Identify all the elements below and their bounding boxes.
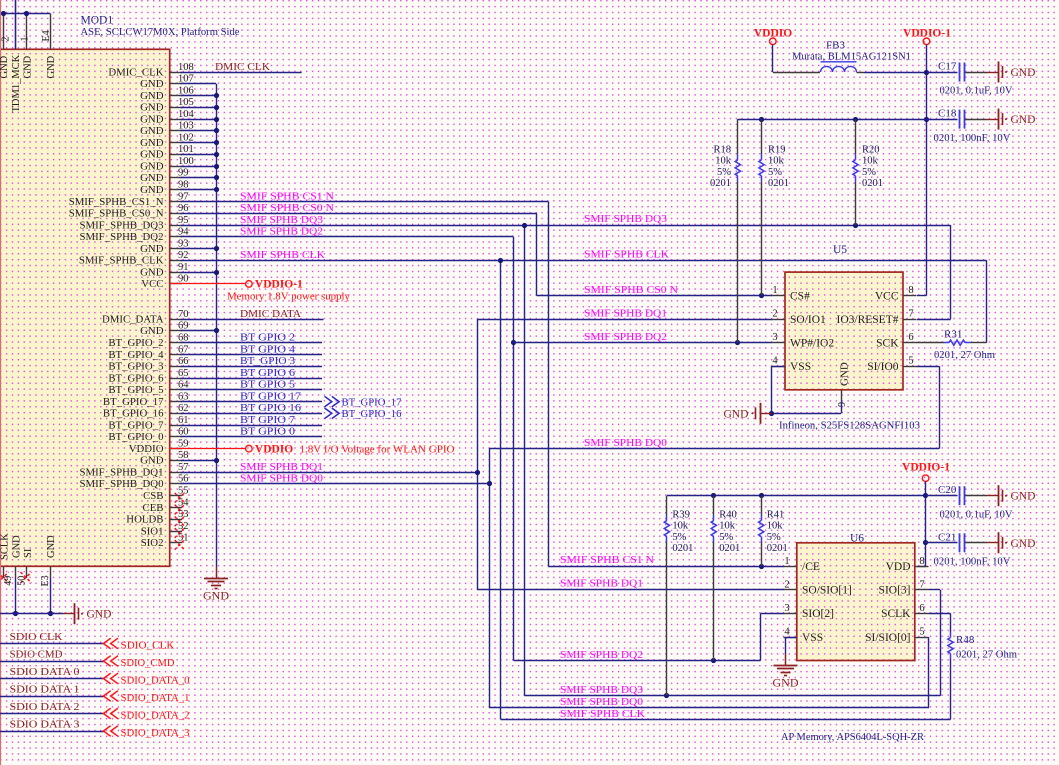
svg-text:6: 6 (919, 603, 924, 614)
pin 58 (GND) stub (170, 460, 183, 462)
svg-text:R39: R39 (672, 510, 690, 521)
pin 62 (BT_GPIO_16) stub (170, 413, 183, 415)
svg-text:SIO[2]: SIO[2] (802, 608, 834, 620)
svg-text:WP#/IO2: WP#/IO2 (790, 338, 834, 350)
junction GND bus pin 99 (214, 175, 219, 180)
off-page connector BT_GPIO_17 (325, 396, 340, 407)
wire SMIF_SPHB_CLK vertical (500, 260, 502, 719)
svg-text:CS#: CS# (790, 290, 810, 302)
svg-text:GND: GND (140, 243, 164, 255)
junction VSS/GND (769, 411, 774, 416)
svg-text:0201: 0201 (672, 543, 693, 554)
off-page connector SDIO_CMD (103, 656, 118, 667)
svg-text:0201: 0201 (767, 543, 788, 554)
pin 104 (GND) stub (170, 119, 183, 121)
svg-text:SMIF SPHB DQ2: SMIF SPHB DQ2 (240, 226, 323, 238)
svg-text:59: 59 (178, 438, 189, 449)
svg-text:67: 67 (178, 344, 189, 355)
svg-text:100: 100 (178, 156, 194, 167)
module MOD1 body (0, 49, 170, 566)
no-connect X on SCLK pin (0, 572, 9, 583)
svg-text:HOLDB: HOLDB (126, 514, 163, 526)
U5 fill (785, 273, 903, 390)
svg-text:BT_GPIO_17: BT_GPIO_17 (342, 397, 402, 409)
svg-text:SMIF SPHB CLK: SMIF SPHB CLK (584, 249, 669, 261)
svg-text:10k: 10k (672, 521, 689, 532)
wire net SDIO_DATA_2 (0, 713, 104, 715)
pin 67 (BT_GPIO_4) stub (170, 354, 183, 356)
wire net of pin 70 (181, 319, 324, 321)
pin 97 (SMIF_SPHB_CS1_N) stub (170, 201, 183, 203)
svg-text:BT GPIO 17: BT GPIO 17 (240, 390, 302, 402)
wire SMIF_SPHB_DQ2 lower run (514, 660, 761, 662)
svg-text:70: 70 (178, 309, 189, 320)
svg-text:DMIC_DATA: DMIC_DATA (102, 314, 164, 326)
junction DQ3 / R39 (664, 693, 669, 698)
module MOD1 fill (0, 49, 170, 566)
wire net of pin 91 (181, 272, 217, 274)
U5 pin 5 SI/IO0 stub (903, 366, 917, 368)
svg-text:GND: GND (140, 90, 164, 102)
wire net of pin 62 (181, 413, 323, 415)
svg-text:3: 3 (784, 603, 789, 614)
svg-text:GND: GND (140, 149, 164, 161)
off-page connector SDIO_DATA_2 (103, 708, 118, 719)
svg-text:GND: GND (1011, 491, 1036, 503)
pin 93 (GND) stub (170, 248, 183, 250)
svg-text:SMIF SPHB CS0 N: SMIF SPHB CS0 N (240, 202, 334, 214)
svg-text:BT_GPIO_3: BT_GPIO_3 (108, 361, 163, 373)
junction GND bus pin 58 (214, 458, 219, 463)
svg-text:108: 108 (178, 62, 194, 73)
pin 92 (SMIF_SPHB_CLK) stub (170, 260, 183, 262)
svg-text:GND: GND (46, 535, 57, 558)
svg-text:SMIF SPHB DQ2: SMIF SPHB DQ2 (584, 331, 667, 343)
U6 pin 4 VSS stub (784, 637, 797, 639)
junction CS0_N / R19 (759, 293, 764, 298)
U6 pin 8 VDD stub (915, 566, 929, 568)
svg-text:10k: 10k (862, 156, 879, 167)
svg-text:U5: U5 (833, 244, 847, 256)
svg-text:SMIF SPHB CS0 N: SMIF SPHB CS0 N (584, 284, 678, 296)
svg-text:SMIF_SPHB_DQ1: SMIF_SPHB_DQ1 (79, 467, 163, 479)
junction rail/R20 (853, 117, 858, 122)
svg-text:MOD1: MOD1 (81, 15, 114, 27)
svg-text:GND: GND (140, 102, 164, 114)
pin 105 (GND) stub (170, 107, 183, 109)
wire net of pin 103 (181, 130, 217, 132)
svg-text:SDIO DATA 3: SDIO DATA 3 (10, 719, 81, 731)
junction GND bus pin 91 (214, 270, 219, 275)
svg-text:SDIO_CMD: SDIO_CMD (121, 657, 175, 669)
wire net of pin 99 (181, 177, 217, 179)
svg-text:BT GPIO 6: BT GPIO 6 (240, 367, 296, 379)
svg-text:95: 95 (178, 215, 189, 226)
svg-text:3: 3 (772, 332, 777, 343)
svg-text:SMIF SPHB DQ0: SMIF SPHB DQ0 (560, 696, 644, 708)
junction GND bus pin 102 (214, 140, 219, 145)
pin TDM1_MCK top stub / wire off sheet (15, 0, 17, 49)
pin 107 (GND) stub (170, 83, 183, 85)
svg-text:5%: 5% (672, 532, 686, 543)
svg-text:66: 66 (178, 356, 189, 367)
svg-text:IO3/RESET#: IO3/RESET# (837, 314, 899, 326)
off-page connector SDIO_DATA_1 (103, 691, 118, 702)
svg-text:SI: SI (23, 548, 34, 558)
svg-text:SIO2: SIO2 (141, 537, 164, 549)
svg-text:SDIO_DATA_1: SDIO_DATA_1 (121, 692, 190, 704)
svg-text:5: 5 (919, 627, 924, 638)
svg-text:53: 53 (178, 509, 189, 520)
U6 pin 2 SO/SIO[1] stub (784, 589, 797, 591)
svg-text:58: 58 (178, 450, 189, 461)
svg-text:0201: 0201 (710, 178, 731, 189)
svg-text:0201, 0.1uF, 10V: 0201, 0.1uF, 10V (940, 508, 1013, 520)
svg-text:VDD: VDD (886, 561, 911, 573)
pin 54 (CEB) stub (170, 507, 183, 509)
memory U6 body (APS6404L psram) (797, 543, 915, 661)
svg-text:SMIF SPHB CS1 N: SMIF SPHB CS1 N (560, 554, 654, 566)
svg-text:SO/SIO[1]: SO/SIO[1] (802, 585, 852, 597)
junction DQ2 / R18 (735, 340, 740, 345)
no-connect X on pin 53 (175, 517, 185, 527)
svg-text:97: 97 (178, 191, 189, 202)
pin 68 (BT_GPIO_2) stub (170, 342, 183, 344)
svg-text:BT GPIO 2: BT GPIO 2 (240, 332, 295, 344)
pin 96 (SMIF_SPHB_CS0_N) stub (170, 213, 183, 215)
svg-text:U6: U6 (850, 533, 864, 545)
svg-text:C18: C18 (938, 108, 957, 120)
svg-text:GND: GND (1011, 114, 1036, 126)
bottom pin GND(49) stub+wire (15, 566, 17, 578)
bottom pin SCLK stub (3, 566, 5, 578)
svg-text:SIO[3]: SIO[3] (879, 585, 911, 597)
svg-text:GND: GND (22, 55, 33, 78)
no-connect X on pin 54 (175, 505, 185, 515)
svg-text:5: 5 (908, 356, 913, 367)
resistor R31 27 Ohm (SCK series) (917, 342, 944, 344)
wire SIO2 riser to U6 pin3 (760, 613, 762, 660)
capacitor C21 (923, 540, 928, 545)
svg-text:GND: GND (87, 609, 112, 621)
svg-text:0201, 27 Ohm: 0201, 27 Ohm (934, 349, 995, 361)
U5 pin 7 IO3/RESET# stub (903, 319, 917, 321)
wire FB3 to VDDIO-1 node (857, 72, 865, 74)
svg-text:4: 4 (784, 627, 790, 638)
svg-text:GND: GND (1011, 538, 1036, 550)
svg-text:BT_GPIO_17: BT_GPIO_17 (103, 396, 164, 408)
svg-text:63: 63 (178, 391, 189, 402)
wire VDDIO-1 rail (R18/R19/R20 tops) (738, 119, 927, 121)
wire SMIF_SPHB_DQ1 vertical (477, 319, 479, 590)
svg-text:7: 7 (908, 309, 913, 320)
svg-text:CEB: CEB (143, 502, 164, 514)
svg-text:SDIO_DATA_2: SDIO_DATA_2 (121, 709, 190, 721)
svg-text:0201: 0201 (768, 178, 789, 189)
wire net of pin 65 (181, 378, 323, 380)
no-connect X on pin 51 (175, 540, 185, 550)
svg-text:6: 6 (908, 332, 913, 343)
wire SMIF_SPHB_DQ2 vertical (513, 237, 515, 661)
pin 108 (DMIC_CLK) stub (170, 72, 183, 74)
svg-text:C20: C20 (938, 484, 957, 496)
pin 1 (GND) top stub (26, 14, 28, 50)
pin 59 (VDDIO) stub (170, 448, 183, 450)
svg-text:SMIF SPHB DQ1: SMIF SPHB DQ1 (560, 578, 643, 590)
svg-text:R40: R40 (719, 510, 737, 521)
svg-text:104: 104 (178, 109, 195, 120)
svg-text:SDIO DATA 1: SDIO DATA 1 (10, 684, 80, 696)
pin 91 (GND) stub (170, 272, 183, 274)
svg-text:TDM1_MCK: TDM1_MCK (11, 54, 22, 112)
svg-text:BT GPIO 4: BT GPIO 4 (240, 343, 296, 355)
svg-text:5%: 5% (719, 532, 733, 543)
svg-text:BT GPIO 0: BT GPIO 0 (240, 426, 296, 438)
svg-text:SCK: SCK (876, 338, 899, 350)
svg-text:10k: 10k (767, 521, 784, 532)
svg-text:BT_GPIO_0: BT_GPIO_0 (108, 431, 163, 443)
pin 60 (BT_GPIO_0) stub (170, 436, 183, 438)
svg-text:GND: GND (140, 161, 164, 173)
svg-text:BT_GPIO_16: BT_GPIO_16 (103, 408, 164, 420)
capacitor C17 (924, 70, 929, 75)
svg-text:96: 96 (178, 203, 189, 214)
pin 2 (GND) top stub (3, 14, 5, 50)
svg-text:0201, 100nF, 10V: 0201, 100nF, 10V (934, 132, 1011, 144)
svg-text:10k: 10k (768, 156, 785, 167)
svg-text:2: 2 (772, 309, 777, 320)
pin 57 (SMIF_SPHB_DQ1) stub (170, 472, 183, 474)
junction GND wire left (13, 611, 18, 616)
svg-text:7: 7 (919, 579, 924, 590)
svg-text:VDDIO: VDDIO (129, 443, 164, 455)
svg-text:BT GPIO 5: BT GPIO 5 (240, 379, 296, 391)
wire net of pin 102 (181, 142, 217, 144)
svg-text:1: 1 (19, 37, 30, 42)
no-connect X on SI pin (21, 572, 32, 583)
resistor R18 10k pull-up (737, 119, 739, 154)
svg-text:2: 2 (784, 579, 789, 590)
svg-text:SMIF_SPHB_CS0_N: SMIF_SPHB_CS0_N (69, 208, 164, 220)
junction rail/R40 (711, 493, 716, 498)
svg-text:BT_GPIO_7: BT_GPIO_7 (108, 419, 164, 431)
junction at pin 1 (24, 11, 29, 16)
svg-text:55: 55 (178, 486, 189, 497)
svg-text:GND: GND (140, 184, 164, 196)
U6 pin 3 SIO[2] stub (784, 613, 797, 615)
svg-text:SDIO DATA 0: SDIO DATA 0 (10, 666, 81, 678)
svg-text:SO/IO1: SO/IO1 (790, 314, 826, 326)
svg-text:GND: GND (1011, 67, 1036, 79)
wire net of pin 69 (181, 330, 217, 332)
pin 95 (SMIF_SPHB_DQ3) stub (170, 225, 183, 227)
svg-text:SDIO CLK: SDIO CLK (10, 631, 63, 643)
off-page connector SDIO_DATA_3 (103, 726, 118, 737)
U5 pin 8 VCC stub (903, 295, 917, 297)
svg-text:49: 49 (3, 576, 14, 586)
junction GND wire right (48, 611, 53, 616)
junction GND bus pin 69 (214, 328, 219, 333)
sheet border line (0, 0, 2, 765)
resistor R19 10k pull-up (761, 119, 763, 154)
pin 98 (GND) stub (170, 189, 183, 191)
off-page connector SDIO_DATA_0 (103, 673, 118, 684)
svg-text:0201, 100nF, 10V: 0201, 100nF, 10V (934, 556, 1011, 568)
junction DQ2 / R40 (711, 658, 716, 663)
svg-text:BT_GPIO_2: BT_GPIO_2 (108, 337, 163, 349)
wire SMIF_SPHB_DQ0 lower run (489, 707, 929, 709)
svg-text:106: 106 (178, 85, 194, 96)
svg-text:BT_GPIO_4: BT_GPIO_4 (108, 349, 164, 361)
svg-text:9: 9 (837, 402, 848, 407)
svg-text:52: 52 (178, 521, 189, 532)
bottom pin SI(50) stub (26, 566, 28, 578)
power wire VCC to VDDIO-1 (170, 283, 246, 285)
svg-text:AP Memory, APS6404L-SQH-ZR: AP Memory, APS6404L-SQH-ZR (781, 731, 925, 743)
junction GND bus pin 104 (214, 117, 219, 122)
svg-text:VDDIO: VDDIO (255, 443, 293, 455)
svg-text:R18: R18 (713, 145, 731, 156)
svg-text:DMIC DATA: DMIC DATA (240, 308, 301, 320)
wire net SDIO_CLK (0, 643, 104, 645)
wire U6 SIO[3] riser (929, 589, 941, 591)
svg-text:GND: GND (140, 125, 164, 137)
pin 55 (CSB) stub (170, 495, 183, 497)
svg-text:92: 92 (178, 250, 189, 261)
junction DQ3 / R20 (853, 223, 858, 228)
U5 pin 2 SO/IO1 stub (772, 319, 786, 321)
junction GND bus pin 100 (214, 164, 219, 169)
resistor R40 10k pull-up (713, 496, 715, 515)
svg-text:4: 4 (772, 356, 778, 367)
svg-text:SDIO CMD: SDIO CMD (10, 649, 63, 661)
svg-text:E3: E3 (40, 575, 51, 586)
U5 pin 3 WP#/IO2 stub (772, 342, 786, 344)
pin 61 (BT_GPIO_7) stub (170, 425, 183, 427)
svg-text:SMIF SPHB CLK: SMIF SPHB CLK (240, 249, 325, 261)
svg-text:Memory 1.8V power supply: Memory 1.8V power supply (227, 291, 350, 303)
svg-text:R41: R41 (767, 510, 785, 521)
svg-text:VCC: VCC (875, 290, 899, 302)
wire net SDIO_CMD (0, 661, 104, 663)
svg-text:SMIF_SPHB_CS1_N: SMIF_SPHB_CS1_N (69, 196, 164, 208)
svg-text:SI/IO0: SI/IO0 (867, 361, 899, 373)
svg-text:SMIF SPHB DQ1: SMIF SPHB DQ1 (240, 461, 323, 473)
U6 pin 5 SI/SIO[0] stub (915, 637, 929, 639)
off-page connector SDIO_CLK (103, 638, 118, 649)
pin 64 (BT_GPIO_5) stub (170, 389, 183, 391)
svg-text:SMIF SPHB DQ2: SMIF SPHB DQ2 (560, 649, 643, 661)
wire SMIF_SPHB_DQ1 to U6 pin2 (477, 589, 784, 591)
svg-text:BT_GPIO_6: BT_GPIO_6 (108, 372, 164, 384)
wire net SDIO_DATA_0 (0, 678, 104, 680)
svg-text:BT GPIO 16: BT GPIO 16 (240, 402, 302, 414)
svg-text:GND: GND (839, 362, 851, 386)
svg-text:DMIC CLK: DMIC CLK (215, 61, 270, 73)
svg-text:54: 54 (178, 497, 189, 508)
wire net of pin 95 (181, 225, 951, 227)
svg-text:/CE: /CE (802, 561, 820, 573)
svg-text:SI/SIO[0]: SI/SIO[0] (865, 632, 910, 644)
svg-text:0201: 0201 (719, 543, 740, 554)
svg-text:VDDIO-1: VDDIO-1 (255, 279, 303, 291)
junction GND bus pin 103 (214, 128, 219, 133)
svg-text:GND: GND (0, 55, 10, 78)
svg-text:R20: R20 (862, 145, 880, 156)
junction DQ0 / pin56 (487, 481, 492, 486)
wire SMIF_SPHB_DQ0 upper run (489, 448, 939, 450)
svg-text:5%: 5% (767, 532, 781, 543)
ferrite bead FB3 (821, 62, 857, 72)
wire SMIF_SPHB_DQ1 to U5 pin2 (477, 319, 772, 321)
wire net of pin 68 (181, 342, 323, 344)
wire net of pin 93 (181, 248, 217, 250)
resistor R39 10k pull-up (666, 496, 668, 515)
wire net of pin 105 (181, 107, 217, 109)
pin 56 (SMIF_SPHB_DQ0) stub (170, 483, 183, 485)
svg-text:62: 62 (178, 403, 189, 414)
svg-text:C21: C21 (938, 531, 956, 543)
wire net SDIO_DATA_3 (0, 731, 104, 733)
svg-text:101: 101 (178, 144, 194, 155)
pin 66 (BT_GPIO_3) stub (170, 366, 183, 368)
bottom pin E3 GND stub+wire (50, 566, 52, 578)
wire net of pin 60 (181, 436, 323, 438)
wire net of pin 61 (181, 425, 323, 427)
ground symbol at GND bus bottom (216, 567, 218, 578)
svg-text:10k: 10k (715, 156, 732, 167)
wire net of pin 67 (181, 354, 323, 356)
wire U5 VSS down (772, 366, 785, 368)
svg-text:DMIC_CLK: DMIC_CLK (108, 66, 163, 78)
pin 51 (SIO2) stub (170, 542, 183, 544)
wire net SDIO_DATA_1 (0, 696, 104, 698)
svg-text:GND: GND (46, 55, 57, 78)
wire net of pin 63 (181, 401, 323, 403)
wire net of pin 100 (181, 166, 217, 168)
svg-text:1: 1 (784, 556, 789, 567)
junction DQ3 branch (522, 223, 527, 228)
svg-text:GND: GND (140, 455, 164, 467)
junction rail/R19 (759, 117, 764, 122)
pin 90 (VCC) stub (170, 283, 183, 285)
svg-text:61: 61 (178, 415, 189, 426)
U6 pin 7 SIO[3] stub (915, 589, 929, 591)
wire net of pin 57 (181, 472, 478, 474)
U6 fill (797, 543, 915, 661)
power symbol VDDIO-1 at pin 90 (246, 281, 253, 288)
svg-text:GND: GND (140, 78, 164, 90)
svg-text:R48: R48 (956, 634, 975, 646)
U6 pin 1 /CE stub (784, 566, 797, 568)
wire SMIF_SPHB_CLK lower run (501, 719, 951, 721)
wire SMIF_SPHB_CS1_N vertical (548, 202, 550, 567)
svg-text:SMIF SPHB DQ3: SMIF SPHB DQ3 (560, 684, 644, 696)
svg-text:SDIO_DATA_0: SDIO_DATA_0 (121, 674, 190, 686)
no-connect X on pin 55 (175, 493, 185, 503)
wire SMIF_SPHB_CS1_N to U6 pin1 (548, 566, 784, 568)
junction CS1_N / R41 (759, 564, 764, 569)
capacitor C18 (924, 117, 929, 122)
svg-text:91: 91 (178, 262, 189, 273)
junction at pin 2 (1, 11, 6, 16)
wire SMIF_SPHB_DQ3 vertical (524, 225, 526, 696)
svg-text:GND: GND (140, 266, 164, 278)
svg-text:GND: GND (773, 675, 799, 689)
wire U5 SI/IO0 riser (917, 366, 940, 368)
svg-text:GND: GND (140, 113, 164, 125)
wire U6 SI/SIO[0] riser (928, 637, 930, 708)
